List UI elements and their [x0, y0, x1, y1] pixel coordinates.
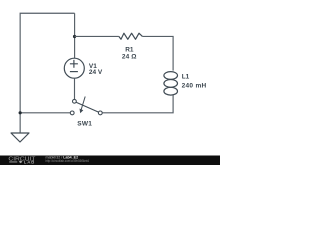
wire from V1 to switch common	[74, 78, 76, 99]
svg-text:R1: R1	[125, 47, 134, 54]
svg-text:240 mH: 240 mH	[182, 83, 207, 90]
svg-text:SW1: SW1	[77, 120, 92, 127]
inductor L1 coils	[164, 72, 178, 96]
svg-text:LAB: LAB	[24, 159, 35, 164]
node ground junction	[19, 111, 22, 114]
node junction at R1 branch	[73, 35, 76, 38]
watermark url text	[46, 159, 90, 163]
wire from resistor to top-right corner and down	[142, 36, 173, 70]
wire right rail below inductor to bottom-right corner	[102, 95, 173, 113]
switch SW1 arrowhead	[80, 109, 84, 114]
svg-text:24 V: 24 V	[89, 69, 103, 76]
watermark bar	[0, 156, 220, 166]
wire bottom left from ground junction to switch	[20, 112, 70, 114]
CircuitLab logo wordmark	[8, 156, 36, 164]
svg-text:L1: L1	[182, 74, 190, 81]
resistor R1	[119, 33, 143, 39]
svg-text:http://circuitlab.com/c/59h55t: http://circuitlab.com/c/59h55t5knt4	[46, 159, 90, 163]
voltage source V1	[64, 58, 84, 78]
wire from junction to resistor	[75, 35, 119, 37]
wire middle vertical from top wire to V1	[74, 13, 76, 58]
ground	[11, 133, 29, 142]
wire left rail and top wire	[20, 13, 74, 133]
svg-text:24 Ω: 24 Ω	[122, 54, 137, 61]
switch SW1	[70, 97, 102, 115]
